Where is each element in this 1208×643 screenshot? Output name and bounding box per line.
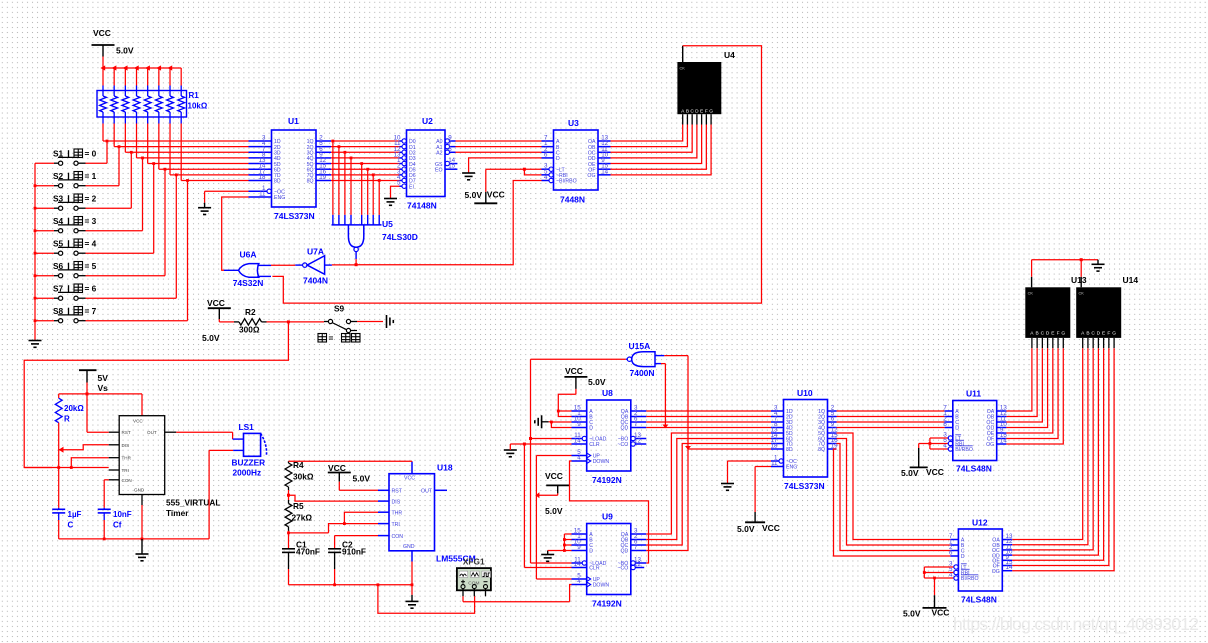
wire U10 ~OC to ground (728, 461, 772, 484)
svg-text:5.0V: 5.0V (903, 609, 921, 619)
svg-text:U14: U14 (1123, 275, 1139, 285)
svg-text:S3: S3 (53, 194, 64, 204)
seven-segment display U14 (1076, 275, 1138, 348)
wire U5 input 3 tap (344, 151, 347, 215)
svg-text:5.0V: 5.0V (545, 506, 563, 516)
switch S4 (key 3) (35, 216, 97, 233)
svg-text:OUT: OUT (421, 489, 433, 495)
counter U9 74192N (572, 512, 647, 609)
wire U3 OG to U4 pin G (611, 125, 712, 175)
svg-text:ENG: ENG (786, 465, 797, 471)
wire S5 to U1 input 5D (86, 162, 156, 253)
svg-text:DIS: DIS (122, 443, 130, 448)
wire U3 OD to U4 pin D (611, 125, 697, 158)
wire U5 input 1 tap (332, 140, 335, 215)
wire U2 A0 to U3 A (456, 140, 542, 142)
svg-text:= 7: = 7 (85, 306, 97, 316)
svg-text:VCC: VCC (487, 190, 505, 200)
ground at U18 (406, 601, 419, 608)
wire U5 output to U7A input (332, 264, 356, 266)
svg-text:VCC: VCC (565, 366, 583, 376)
wire S6 to U1 input 6D (86, 168, 167, 276)
seven-segment display U4 (677, 50, 735, 125)
function generator XFG1 (457, 557, 491, 597)
svg-text:12: 12 (634, 561, 641, 568)
capacitor C 1µF (52, 508, 81, 530)
svg-text:U12: U12 (972, 518, 988, 528)
wire VCC to U12 LT/RBI/RBO (923, 567, 953, 595)
switch S1 (key 0) (35, 149, 97, 166)
svg-text:F: F (705, 109, 708, 115)
svg-text:THR: THR (122, 456, 132, 461)
inverter U7A 7404N (295, 247, 332, 286)
switch S5 (key 4) (35, 239, 97, 256)
svg-text:~BI/RBO: ~BI/RBO (556, 179, 577, 185)
svg-text:14: 14 (1006, 564, 1013, 571)
svg-text:8Q: 8Q (818, 447, 825, 453)
wire U11 OF to U13 F (1006, 348, 1058, 438)
ground at 555 block (136, 539, 149, 561)
svg-text:8D: 8D (274, 179, 281, 185)
svg-text:G: G (1061, 330, 1065, 336)
resistor network R1 10kΩ (97, 86, 208, 124)
svg-text:QD: QD (621, 426, 629, 432)
svg-text:5.0V: 5.0V (588, 377, 606, 387)
wire VCC bus to R1 (100, 65, 181, 85)
power VCC (5.0V) at U12 (903, 595, 949, 618)
svg-text:GND: GND (134, 488, 145, 493)
svg-text:5.0V: 5.0V (465, 190, 483, 200)
wire R1 column 3 to U1 pin 3D (125, 124, 248, 153)
source Vs 5V (79, 370, 108, 393)
wire U11 OG to U13 G (1006, 348, 1063, 444)
svg-text:D: D (961, 554, 965, 560)
svg-text:DOWN: DOWN (593, 583, 610, 589)
svg-text:B: B (1036, 330, 1039, 336)
svg-text:U11: U11 (966, 389, 981, 399)
wire U3 OC to U4 pin C (611, 125, 693, 153)
svg-text:R1: R1 (189, 91, 200, 100)
ground at U8 CLR (504, 450, 517, 457)
wire R1 column 2 to U1 pin 2D (114, 124, 248, 147)
wire R5 bottom to TRI/THR and C1 (287, 512, 378, 549)
svg-text:14: 14 (1000, 438, 1007, 445)
encoder U2 74148N (394, 116, 458, 211)
wire U15A input-B tap (661, 364, 668, 429)
svg-text:=: = (329, 333, 334, 343)
wire ground to U9 A-D (548, 534, 572, 552)
wire U2 A2 to U3 C (456, 151, 542, 153)
svg-text:EI: EI (409, 184, 414, 190)
svg-text:S9: S9 (334, 304, 345, 314)
svg-text:30kΩ: 30kΩ (293, 472, 314, 482)
svg-text:A2: A2 (436, 150, 442, 156)
svg-text:18: 18 (771, 443, 778, 450)
svg-text:CK: CK (1079, 291, 1085, 295)
power VCC (5.0V) at U8 UP (545, 471, 569, 516)
svg-text:4: 4 (544, 174, 548, 181)
wire S7 to U1 input 7D (86, 173, 178, 298)
wire U8 QA to U10 1D (646, 410, 771, 412)
decoder U3 7448N (542, 118, 611, 205)
svg-text:19: 19 (319, 174, 326, 181)
switch S8 (key 7) (35, 306, 97, 323)
wire U5 input 4 tap (350, 157, 353, 215)
svg-text:10nF: 10nF (113, 510, 132, 519)
svg-text:470nF: 470nF (296, 547, 320, 557)
wire U3 OF to U4 pin F (611, 125, 707, 170)
wire U15A output to U8/U9 ~LOAD (529, 359, 626, 563)
wire U12 OC to U14 C (1012, 348, 1093, 550)
svg-text:4: 4 (577, 578, 581, 585)
capacitor Cf 10nF (98, 508, 132, 530)
wire THR jog (70, 458, 109, 469)
svg-text:= 3: = 3 (85, 216, 97, 226)
svg-text:B: B (686, 109, 689, 115)
svg-text:VCC: VCC (93, 28, 111, 38)
wire U11 OD to U13 D (1006, 348, 1047, 427)
svg-text:555_VIRTUAL: 555_VIRTUAL (166, 498, 220, 508)
wire VCC to U8 A and B (557, 394, 576, 416)
wire U8 QD to U10 4D (646, 427, 771, 429)
svg-text:BI/RBO: BI/RBO (955, 447, 973, 453)
svg-text:U15A: U15A (629, 341, 651, 351)
wire U12 OD to U14 D (1012, 348, 1098, 555)
svg-text:U2: U2 (422, 116, 433, 126)
buzzer LS1 2000Hz (232, 422, 267, 478)
svg-text:BI/RBO: BI/RBO (961, 576, 979, 582)
svg-text:F: F (1107, 330, 1110, 336)
svg-text:6: 6 (949, 550, 953, 557)
svg-text:VCC: VCC (932, 608, 950, 618)
wire S4 to U1 input 4D (86, 157, 144, 231)
switch S7 (key 6) (35, 284, 97, 301)
svg-text:S7: S7 (53, 284, 64, 294)
svg-text:~CO: ~CO (617, 442, 628, 448)
latch U10 74LS373N (771, 388, 839, 491)
svg-text:D: D (695, 109, 699, 115)
svg-text:S6: S6 (53, 261, 64, 271)
svg-text:7404N: 7404N (303, 276, 328, 286)
wire U8 DOWN to U9 ~BO (570, 461, 649, 563)
svg-text:R: R (64, 415, 70, 424)
svg-text:74192N: 74192N (592, 475, 622, 485)
svg-text:S1: S1 (53, 149, 64, 159)
wire U9 QC to U10 7D (646, 444, 771, 546)
wire S9 to ground (357, 321, 383, 323)
wire U12 OA to U14 A (1012, 348, 1082, 539)
ground at U2 EI (384, 199, 397, 206)
svg-text:VCC: VCC (404, 476, 415, 482)
wire VCC to U11 LT/RBI/RBO (919, 438, 948, 449)
svg-text:74LS48N: 74LS48N (961, 595, 997, 605)
wire C2 top to U18 CON (335, 535, 378, 537)
svg-text:https://blog.csdn.net/qq_40893: https://blog.csdn.net/qq_40893012 (953, 614, 1199, 635)
svg-text:F: F (1057, 330, 1060, 336)
svg-text:U1: U1 (288, 116, 299, 126)
ground at U9 inputs (541, 551, 554, 562)
svg-text:VCC: VCC (133, 419, 143, 424)
NAND gate U5 74LS30D (332, 215, 418, 259)
svg-text:5.0V: 5.0V (737, 524, 755, 534)
wire U12 OE to U14 E (1012, 348, 1103, 560)
wire R1 column 5 to U1 pin 5D (148, 124, 249, 164)
wire S8 to U1 input 8D (86, 179, 189, 321)
svg-text:OG: OG (986, 442, 994, 448)
svg-text:= 5: = 5 (85, 261, 97, 271)
wire U8 QB to U10 2D (646, 416, 771, 418)
OR gate U6A 74S32N (224, 250, 271, 288)
wire U5 input 7 tap (372, 173, 375, 214)
svg-text:ENG: ENG (274, 195, 285, 201)
svg-text:8D: 8D (786, 447, 793, 453)
latch U1 74LS373N (249, 116, 332, 221)
wire VCC to U3 ~LT and ~RBI (486, 168, 542, 175)
svg-text:U9: U9 (602, 512, 613, 522)
wire U15A input-A tap (664, 356, 691, 450)
switch S6 (key 5) (35, 261, 97, 278)
wire VCC to U8/U9 UP (536, 456, 572, 580)
svg-text:VCC: VCC (328, 463, 346, 473)
resistor R 20kΩ (55, 398, 84, 423)
wire S1 to U1 input 1D (86, 140, 109, 164)
NAND gate U15A 7400N (626, 341, 665, 378)
svg-text:CK: CK (1028, 291, 1034, 295)
svg-text:CON: CON (392, 534, 404, 540)
svg-text:CLR: CLR (589, 566, 600, 572)
wire U10 3Q to U11 C (837, 421, 945, 423)
svg-text:74148N: 74148N (407, 201, 437, 211)
wire R2 to S9 (267, 320, 325, 323)
power VCC (5.0V) above U8 (564, 366, 605, 394)
wire U9 QD to U10 8D (646, 449, 771, 551)
svg-text:= 4: = 4 (85, 239, 97, 249)
svg-text:TRI: TRI (392, 522, 400, 528)
svg-text:D: D (589, 426, 593, 432)
svg-text:CON: CON (122, 478, 132, 483)
ground at S9 (387, 315, 394, 328)
svg-text:G: G (709, 109, 713, 115)
svg-text:= 0: = 0 (85, 149, 97, 159)
svg-text:2000Hz: 2000Hz (233, 468, 262, 478)
wire U18 ground rail (289, 569, 475, 613)
switch S9 (space key) (318, 304, 360, 344)
wire R1 column 1 to U1 pin 1D (103, 124, 249, 142)
counter U8 74192N (572, 388, 647, 485)
svg-text:74192N: 74192N (592, 599, 622, 609)
ground for switch bus (29, 338, 42, 347)
wire R4 bottom node (287, 490, 378, 501)
wire U12 OB to U14 B (1012, 348, 1088, 545)
svg-text:8Q: 8Q (307, 179, 314, 185)
wire buzzer return (209, 450, 243, 539)
power VCC (5.0V) at R2 (202, 298, 231, 343)
wire U1 8Q to U2 D7 (331, 179, 400, 181)
svg-text:DIS: DIS (392, 499, 401, 505)
power VCC (5.0V) at U11 (901, 444, 944, 479)
svg-text:B: B (1086, 330, 1089, 336)
svg-text:S8: S8 (53, 306, 64, 316)
wire U10 ENG to VCC (755, 467, 771, 513)
wire ground to U8/U9 CLR (510, 443, 571, 568)
svg-text:15: 15 (448, 163, 455, 170)
svg-text:5.0V: 5.0V (116, 46, 134, 56)
wire ground rail 555 block (59, 505, 209, 540)
ground at U1 ~OC (198, 203, 211, 215)
wire U5 input 8 tap (378, 179, 381, 215)
wire U1 2Q to U2 D1 (331, 146, 400, 148)
svg-text:RST: RST (392, 489, 403, 495)
ground at U8 C/D (535, 415, 549, 428)
svg-text:U10: U10 (797, 388, 813, 398)
svg-text:OUT: OUT (147, 430, 157, 435)
wire U1 3Q to U2 D2 (331, 151, 400, 153)
svg-text:XFG1: XFG1 (463, 557, 485, 567)
svg-text:74LS30D: 74LS30D (382, 232, 418, 242)
svg-text:9: 9 (577, 421, 581, 428)
wire U10 1Q to U11 A (837, 410, 945, 412)
svg-text:7400N: 7400N (630, 368, 655, 378)
svg-text:5.0V: 5.0V (353, 474, 371, 484)
wire U5 input 2 tap (338, 145, 341, 215)
svg-text:RST: RST (122, 430, 131, 435)
svg-text:14: 14 (574, 438, 581, 445)
svg-text:BUZZER: BUZZER (232, 458, 266, 468)
wire U2 EI to ground (391, 186, 400, 198)
wire U2 A1 to U3 B (456, 146, 542, 148)
svg-text:910nF: 910nF (342, 547, 366, 557)
svg-text:EO: EO (435, 167, 443, 173)
svg-text:5.0V: 5.0V (901, 468, 919, 478)
wire U10 5Q to U12 A (837, 433, 951, 540)
timer 555_VIRTUAL (109, 416, 221, 518)
svg-text:C: C (690, 109, 694, 115)
svg-text:G: G (1112, 330, 1116, 336)
wire U3 ~BI/RBO to U5 output net (356, 180, 541, 264)
svg-text:11: 11 (259, 191, 266, 198)
wire S2 to U1 input 2D (86, 145, 121, 185)
wire U5 input 6 tap (366, 168, 369, 215)
svg-text:CK: CK (680, 67, 686, 71)
wire U3 D to ground (469, 158, 542, 173)
wire U3 OE to U4 pin E (611, 125, 702, 164)
svg-text:R2: R2 (245, 307, 256, 317)
svg-text:= 6: = 6 (85, 284, 97, 294)
svg-text:U4: U4 (724, 50, 735, 60)
wire U3 OB to U4 pin B (611, 125, 688, 147)
svg-text:U5: U5 (382, 219, 393, 229)
svg-text:1µF: 1µF (68, 510, 82, 519)
switch S2 (key 1) (35, 171, 97, 188)
svg-text:QD: QD (621, 549, 629, 555)
wire R1 column 6 to U1 pin 6D (159, 124, 249, 170)
wire U1 6Q to U2 D5 (331, 168, 400, 170)
svg-text:7: 7 (634, 544, 638, 551)
svg-text:U7A: U7A (307, 247, 324, 257)
svg-text:20kΩ: 20kΩ (64, 404, 84, 413)
wire U1 7Q to U2 D6 (331, 174, 400, 176)
decoder U11 74LS48N (943, 389, 1007, 474)
svg-text:U13: U13 (1071, 275, 1087, 285)
wire U6A output to U1 ENG (222, 197, 249, 270)
wire DIS jog (59, 445, 109, 453)
watermark (953, 614, 1199, 635)
wire U10 7Q to U12 C (837, 444, 951, 551)
wire switch common bus (34, 163, 37, 338)
wire U10 6Q to U12 B (837, 439, 951, 546)
wire U5 output node (355, 259, 358, 266)
svg-text:U18: U18 (437, 463, 453, 473)
wire U5 input 5 tap (360, 162, 363, 215)
svg-text:THR: THR (392, 510, 403, 516)
svg-text:E: E (1102, 330, 1105, 336)
ground at U10 ~OC (721, 484, 734, 491)
wire U1 4Q to U2 D3 (331, 157, 400, 159)
svg-text:D: D (1046, 330, 1050, 336)
svg-text:VCC: VCC (762, 523, 780, 533)
wire U1 1Q to U2 D0 (331, 140, 400, 142)
power VCC (5.0V) top-left (92, 28, 134, 69)
svg-text:D: D (955, 426, 959, 432)
wire U7A output to U6A input-1 (271, 264, 295, 266)
wire U11 OE to U13 E (1006, 348, 1052, 433)
power VCC (5.0V) at U10 ENG (737, 512, 780, 534)
svg-text:74S32N: 74S32N (233, 278, 264, 288)
wire U11 OB to U13 B (1006, 348, 1037, 416)
ground at displays (1092, 264, 1105, 271)
capacitor C1 470nF (282, 540, 320, 570)
wire U13/U14 CK to ground (1032, 258, 1098, 287)
svg-text:U3: U3 (568, 118, 579, 128)
svg-text:18: 18 (259, 174, 266, 181)
svg-text:VCC: VCC (545, 471, 563, 481)
svg-text:CLR: CLR (589, 442, 600, 448)
svg-text:R5: R5 (293, 501, 304, 511)
svg-text:S5: S5 (53, 239, 64, 249)
wire S9 net to 555 trigger (24, 322, 288, 468)
wire U4 CK to U6A input-2 net (272, 46, 761, 303)
wire R1 column 8 to U1 pin 8D (181, 124, 248, 181)
svg-text:DOWN: DOWN (593, 459, 610, 465)
wire U12 OF to U14 F (1012, 348, 1109, 565)
decoder U12 74LS48N (949, 518, 1013, 605)
capacitor C2 910nF (328, 536, 366, 569)
svg-text:C: C (68, 521, 74, 530)
wire U11 OA to U13 A (1006, 348, 1032, 411)
wire U8 QC to U10 3D (646, 421, 771, 423)
svg-text:C: C (1041, 330, 1045, 336)
svg-text:9: 9 (577, 544, 581, 551)
svg-text:14: 14 (574, 561, 581, 568)
svg-text:VCC: VCC (926, 467, 944, 477)
power VCC (5.0V) at U3 (465, 169, 505, 203)
svg-text:6: 6 (544, 151, 548, 158)
svg-text:U8: U8 (602, 388, 613, 398)
svg-text:D: D (1097, 330, 1101, 336)
svg-text:OG: OG (587, 173, 595, 179)
svg-text:GND: GND (403, 544, 415, 550)
power VCC (5.0V) at U18 RST (328, 463, 378, 490)
svg-text:OG: OG (992, 569, 1000, 575)
svg-text:S4: S4 (53, 216, 64, 226)
wire Vs node (59, 383, 142, 416)
svg-text:6: 6 (448, 146, 452, 153)
svg-text:LS1: LS1 (239, 422, 255, 432)
svg-text:Vs: Vs (98, 383, 109, 393)
wire R1 column 7 to U1 pin 7D (170, 124, 248, 175)
timer U18 LM555CM (378, 462, 476, 564)
svg-text:= 2: = 2 (85, 194, 97, 204)
